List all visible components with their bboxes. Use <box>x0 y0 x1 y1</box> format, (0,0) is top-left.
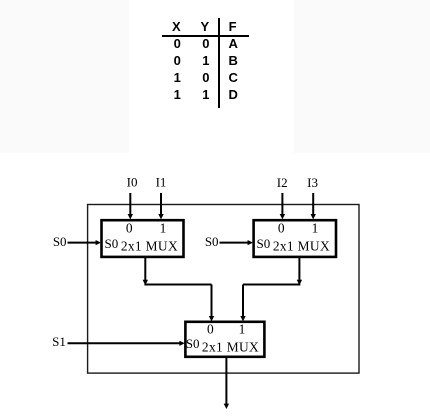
svg-text:S0: S0 <box>186 336 200 351</box>
svg-text:0: 0 <box>278 221 285 236</box>
svg-text:1: 1 <box>312 221 319 236</box>
truth table header F <box>213 20 253 33</box>
svg-text:I0: I0 <box>127 175 138 190</box>
2x1 MUX U2 (top-right) <box>254 220 336 257</box>
wire U1 output to U3 pin 0 <box>143 257 215 321</box>
truth table row 2: 0 1 B <box>157 54 197 67</box>
truth table row 3: 1 0 C <box>157 71 197 84</box>
svg-text:0: 0 <box>126 221 133 236</box>
wire I1 to U1 pin 1 <box>158 193 163 219</box>
svg-text:I2: I2 <box>277 175 288 190</box>
background: light grey top band <box>0 0 430 153</box>
truth table header Y <box>185 20 225 33</box>
svg-text:0: 0 <box>207 322 214 337</box>
svg-text:S1: S1 <box>52 334 66 349</box>
truth table header X <box>156 20 196 33</box>
background: white table panel <box>129 0 294 153</box>
wire I3 to U2 pin 1 <box>311 193 316 219</box>
wire U2 output to U3 pin 1 <box>240 257 302 321</box>
svg-text:S0: S0 <box>205 234 219 249</box>
svg-text:S0: S0 <box>53 234 67 249</box>
truth table row 1: 0 0 A <box>157 37 197 50</box>
wire S0 to U2 select <box>220 240 254 245</box>
wire I2 to U2 pin 0 <box>280 193 285 219</box>
svg-text:2x1 MUX: 2x1 MUX <box>121 238 178 253</box>
svg-text:2x1 MUX: 2x1 MUX <box>202 340 259 355</box>
svg-text:1: 1 <box>239 322 246 337</box>
svg-text:1: 1 <box>160 221 167 236</box>
wire I0 to U1 pin 0 <box>128 193 133 219</box>
output wire F <box>224 357 229 409</box>
truth table row 4: 1 1 D <box>157 88 197 101</box>
truth table horizontal rule <box>162 35 249 37</box>
2x1 MUX U1 (top-left) <box>102 220 184 257</box>
svg-text:S0: S0 <box>257 236 271 251</box>
svg-text:I3: I3 <box>307 175 318 190</box>
wire S1 to U3 select <box>68 341 185 346</box>
2x1 MUX U3 (bottom) <box>185 322 264 357</box>
svg-text:I1: I1 <box>156 175 167 190</box>
wire S0 to U1 select <box>68 240 102 245</box>
svg-text:S0: S0 <box>105 236 119 251</box>
enclosure box <box>88 205 359 374</box>
truth table vertical rule <box>218 18 220 108</box>
svg-text:2x1 MUX: 2x1 MUX <box>273 238 330 253</box>
